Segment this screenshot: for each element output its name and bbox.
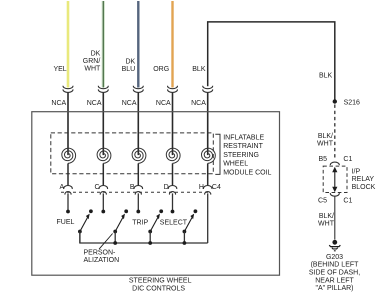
wire BLK/WHT to ground	[334, 196, 336, 239]
svg-text:PERSON-: PERSON-	[84, 250, 117, 257]
svg-text:I/P: I/P	[352, 168, 361, 175]
svg-text:NCA: NCA	[191, 100, 206, 107]
svg-text:RESTRAINT: RESTRAINT	[223, 143, 263, 150]
svg-text:SELECT: SELECT	[160, 219, 188, 226]
svg-text:BLU: BLU	[122, 66, 136, 73]
svg-text:NCA: NCA	[156, 100, 171, 107]
svg-text:D: D	[164, 184, 169, 191]
svg-text:BLK/: BLK/	[319, 213, 334, 220]
svg-text:C4: C4	[212, 184, 221, 191]
svg-text:STEERING WHEEL: STEERING WHEEL	[129, 278, 192, 285]
svg-text:WHT: WHT	[318, 221, 335, 228]
FUEL switch	[78, 230, 82, 234]
pin D terminal pair	[168, 186, 177, 190]
coil 3 (clockspring spiral)	[132, 148, 146, 163]
svg-text:A: A	[60, 184, 65, 191]
svg-text:WHT: WHT	[84, 65, 101, 72]
svg-text:NCA: NCA	[51, 100, 66, 107]
wire switch 3 to bus	[149, 232, 151, 244]
bus junction node	[183, 241, 187, 245]
wire pin H to switch common bus	[207, 193, 209, 243]
svg-text:FUEL: FUEL	[57, 219, 75, 226]
svg-text:(BEHIND LEFT: (BEHIND LEFT	[311, 262, 360, 269]
inline connector (terminal pair) at wire 4	[168, 86, 178, 89]
inline connector (terminal pair) at wire 3	[133, 86, 143, 89]
svg-text:DK: DK	[91, 50, 101, 57]
wire segment into coil 4	[172, 93, 174, 156]
wire from coil 5 to pin H	[207, 163, 209, 185]
svg-text:TRIP: TRIP	[132, 219, 148, 226]
svg-text:DK: DK	[125, 58, 135, 65]
coil 4 (clockspring spiral)	[166, 148, 180, 163]
wire pin C to switch contact	[102, 193, 104, 211]
pin C terminal pair	[99, 186, 108, 190]
SELECT switch	[183, 230, 187, 234]
pin A terminal pair	[64, 186, 73, 190]
svg-text:C1: C1	[343, 197, 352, 204]
wire DK BLU circuit (dark blue)	[137, 1, 139, 88]
wire pin A to switch contact	[67, 193, 69, 211]
svg-text:B5: B5	[318, 156, 327, 163]
svg-text:ORG: ORG	[153, 66, 169, 73]
wire from coil 2 to pin C	[102, 163, 104, 185]
svg-text:SIDE OF DASH,: SIDE OF DASH,	[309, 270, 360, 277]
svg-text:MODULE COIL: MODULE COIL	[223, 170, 271, 177]
svg-text:NEAR LEFT: NEAR LEFT	[315, 277, 354, 284]
svg-text:NCA: NCA	[87, 100, 102, 107]
svg-text:C: C	[94, 184, 99, 191]
inline connector (terminal pair) at wire 5	[203, 86, 213, 89]
wire YEL circuit (yellow)	[67, 1, 70, 88]
svg-text:H: H	[199, 184, 204, 191]
wire DK GRN/WHT circuit (dark green/white)	[102, 1, 105, 88]
wire from coil 1 to pin A	[67, 163, 69, 185]
pin H terminal pair	[203, 186, 212, 190]
svg-text:GRN/: GRN/	[83, 58, 101, 65]
svg-text:WHT: WHT	[317, 140, 334, 147]
svg-text:BLK: BLK	[192, 66, 206, 73]
coil 2 (clockspring spiral)	[97, 148, 111, 163]
dashed box: inflatable restraint steering wheel module coil	[51, 133, 214, 174]
relay block bottom terminal	[330, 193, 339, 196]
wire segment into coil 2	[102, 93, 104, 156]
svg-text:STEERING: STEERING	[223, 152, 259, 159]
splice S216	[333, 99, 337, 103]
bus junction node	[113, 241, 117, 245]
label PERSONALIZATION with pointer	[99, 234, 113, 250]
svg-text:ALIZATION: ALIZATION	[84, 257, 120, 264]
component box: steering wheel DIC controls	[32, 112, 280, 276]
svg-text:G203: G203	[326, 254, 343, 261]
ground G203 symbol	[332, 240, 337, 245]
coil 1 (clockspring spiral)	[62, 148, 76, 163]
wire segment into coil 5	[207, 93, 209, 156]
svg-text:YEL: YEL	[53, 66, 66, 73]
inline connector (terminal pair) at wire 1	[63, 86, 73, 89]
wire switch 1 to bus	[79, 232, 81, 244]
wire switch 4 to bus	[183, 232, 185, 244]
svg-text:NCA: NCA	[122, 100, 137, 107]
svg-text:"A" PILLAR): "A" PILLAR)	[315, 285, 353, 292]
bracket pointing to coil box	[215, 134, 220, 174]
svg-text:C5: C5	[318, 197, 327, 204]
wire ORG circuit (orange)	[171, 1, 173, 88]
wire from coil 3 to pin B	[137, 163, 139, 185]
PERSONALIZATION switch	[113, 230, 117, 234]
svg-text:RELAY: RELAY	[352, 176, 375, 183]
svg-text:B: B	[130, 184, 135, 191]
svg-text:BLOCK: BLOCK	[352, 184, 376, 191]
wire from coil 4 to pin D	[172, 163, 174, 185]
svg-text:BLK/: BLK/	[318, 133, 333, 140]
wire BLK from connector up and across to right side	[208, 22, 335, 102]
pin B terminal pair	[134, 186, 143, 190]
inline connector (terminal pair) at wire 2	[98, 86, 108, 89]
svg-text:WHEEL: WHEEL	[223, 161, 248, 168]
svg-text:C1: C1	[343, 156, 352, 163]
bus junction node	[148, 241, 152, 245]
wire pin D to switch contact	[172, 193, 174, 211]
connector C4 dashed boundary line	[61, 191, 211, 193]
relay block top terminal	[330, 162, 339, 165]
TRIP switch	[148, 230, 152, 234]
relay block pass-through wire (double arrow)	[334, 170, 336, 189]
svg-text:BLK: BLK	[319, 73, 333, 80]
svg-text:DIC CONTROLS: DIC CONTROLS	[132, 285, 185, 292]
switch common bus wire	[80, 232, 208, 244]
wire segment into coil 3	[137, 93, 139, 156]
svg-text:INFLATABLE: INFLATABLE	[223, 134, 264, 141]
I/P relay block dashed box	[323, 166, 347, 192]
svg-text:S216: S216	[344, 100, 360, 107]
wire switch 2 to bus	[114, 232, 116, 244]
wire segment into coil 1	[67, 93, 69, 156]
dashed wire BLK/WHT to relay block	[334, 105, 336, 160]
coil 5 (clockspring spiral)	[202, 148, 216, 163]
wire pin B to switch contact	[137, 193, 139, 211]
